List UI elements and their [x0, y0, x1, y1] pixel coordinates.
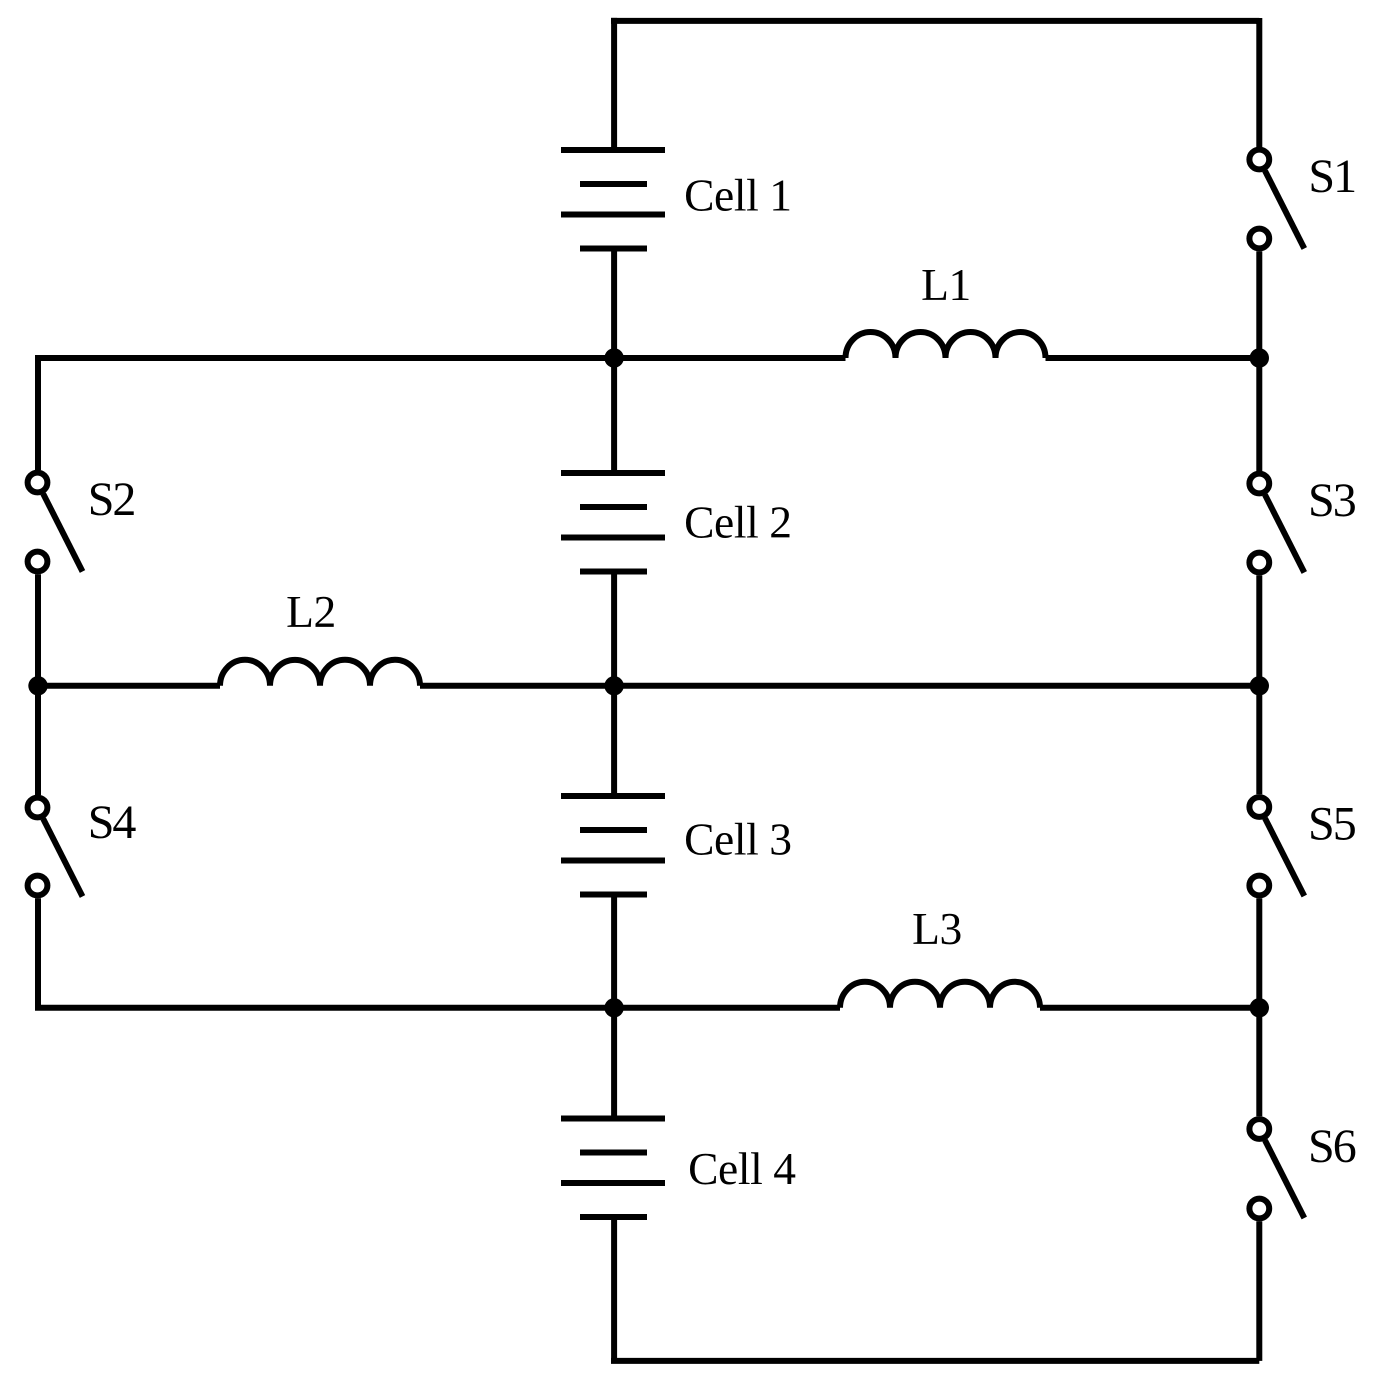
svg-text:Cell 4: Cell 4 [688, 1143, 796, 1194]
wire Cell 2 to node B [611, 572, 617, 686]
wire S4 to row3 corner [38, 898, 840, 1008]
switch S1 [1249, 150, 1304, 249]
switch S5 [1249, 797, 1304, 896]
svg-text:S6: S6 [1308, 1120, 1356, 1173]
node C junction dot [604, 998, 623, 1017]
svg-text:S2: S2 [88, 473, 135, 526]
svg-text:L2: L2 [286, 586, 336, 637]
wire Cell 3 to node C [611, 895, 617, 1008]
wire Cell 4 to bottom bus [611, 1217, 617, 1361]
wire node B to Cell 3 [611, 686, 617, 796]
node A junction dot [604, 348, 623, 367]
svg-text:Cell 3: Cell 3 [684, 813, 792, 864]
wire row1 left segment [38, 358, 846, 361]
switch S3 [1249, 474, 1304, 573]
wire node E to S3 [1256, 358, 1262, 471]
wire S6 to bottom bus [1256, 1221, 1262, 1361]
inductor L1 [846, 332, 1046, 358]
wire left rail row1 to S2 [35, 358, 41, 470]
wire bottom bus [611, 1358, 1259, 1364]
wire node F to S5 [1256, 686, 1262, 795]
wire node D to S4 [35, 686, 41, 795]
wire S5 to node G [1256, 898, 1262, 1008]
wire node G to S6 [1256, 1008, 1262, 1117]
svg-text:S1: S1 [1308, 150, 1355, 203]
battery Cell 4 [561, 1119, 665, 1218]
wire cell-string top to Cell 1 [611, 18, 617, 150]
svg-text:S4: S4 [88, 796, 137, 849]
wire row2 right segment [420, 683, 1259, 689]
inductor L3 [840, 982, 1040, 1008]
svg-text:L3: L3 [912, 903, 962, 954]
node B junction dot [604, 676, 623, 695]
wire right rail top to S1 [1256, 21, 1259, 147]
node E junction dot [1250, 348, 1269, 367]
switch S4 [28, 798, 83, 897]
node D junction dot [28, 676, 47, 695]
switch S2 [28, 473, 83, 572]
wire S3 to node F [1256, 575, 1262, 686]
wire Cell 1 to node A [611, 249, 617, 359]
wire S2 to node D [35, 574, 41, 686]
svg-text:Cell 2: Cell 2 [684, 497, 792, 548]
svg-text:L1: L1 [921, 259, 971, 310]
wire top bus [611, 18, 1259, 24]
battery Cell 2 [561, 473, 665, 572]
node F junction dot [1250, 676, 1269, 695]
svg-text:S3: S3 [1308, 474, 1356, 527]
wire node A to Cell 2 [611, 358, 617, 473]
wire node C to Cell 4 [611, 1008, 617, 1119]
wire row1 right segment [1046, 355, 1260, 361]
switch S6 [1249, 1119, 1304, 1218]
node G junction dot [1250, 998, 1269, 1017]
svg-text:S5: S5 [1308, 797, 1356, 850]
svg-text:Cell 1: Cell 1 [684, 170, 792, 221]
wire row2 left stub [38, 683, 220, 689]
battery Cell 1 [561, 150, 665, 249]
wire row3 right segment [1040, 1005, 1259, 1011]
inductor L2 [220, 660, 420, 686]
battery Cell 3 [561, 796, 665, 895]
wire S1 to node E [1256, 251, 1262, 358]
